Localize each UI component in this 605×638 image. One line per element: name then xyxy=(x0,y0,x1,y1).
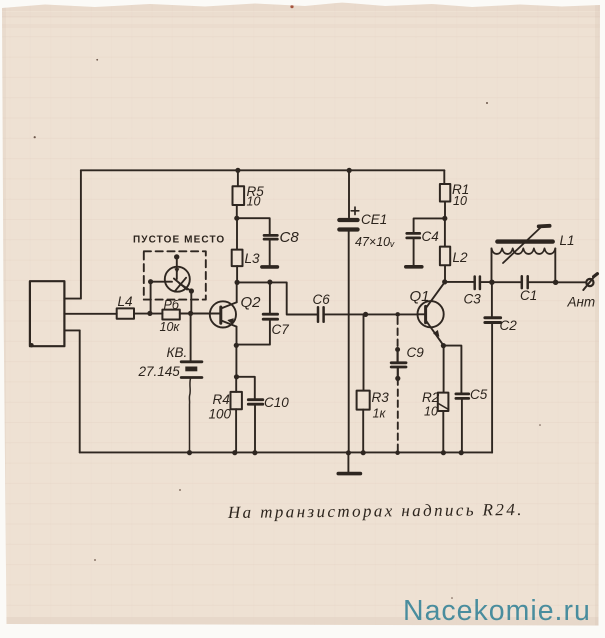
transistor Q2 xyxy=(210,301,237,327)
wire left vertical lower xyxy=(79,330,81,452)
node crystal bus xyxy=(187,450,192,455)
wire Q2 emitter chain xyxy=(235,345,237,377)
wire top supply bus xyxy=(81,169,444,171)
node Q2 collector xyxy=(235,280,240,285)
wire block output xyxy=(64,313,116,315)
node Q1 collector xyxy=(442,279,447,284)
node tank left xyxy=(489,280,494,285)
wire C10 bottom xyxy=(254,404,256,453)
capacitor C1 xyxy=(492,281,522,283)
wire C4 branch xyxy=(414,218,445,233)
svg-text:10: 10 xyxy=(247,195,261,209)
svg-text:На транзисторах надпись R24.: На транзисторах надпись R24. xyxy=(227,500,524,522)
wire bottom ground bus xyxy=(80,451,492,453)
svg-text:C5: C5 xyxy=(470,387,488,402)
svg-text:Q1: Q1 xyxy=(410,288,430,305)
inductor L2 xyxy=(444,218,446,246)
capacitor C7 xyxy=(269,282,271,314)
wire R1 to node xyxy=(444,202,446,219)
svg-text:L1: L1 xyxy=(560,233,575,248)
svg-text:27.145: 27.145 xyxy=(138,364,181,379)
svg-text:C4: C4 xyxy=(422,229,439,244)
right edge shadow xyxy=(595,0,600,638)
node junction base-left xyxy=(147,311,152,316)
node R3 bus xyxy=(361,450,366,455)
node Q1 emitter xyxy=(441,343,446,348)
wire phantom base xyxy=(151,282,172,314)
wire top bus corner to R1 xyxy=(443,170,445,184)
resistor R4 xyxy=(231,392,242,409)
ground symbol xyxy=(347,453,349,472)
node C5 bus xyxy=(459,450,464,455)
svg-text:ПУСТОЕ МЕСТО: ПУСТОЕ МЕСТО xyxy=(133,235,225,246)
bottom edge shadow xyxy=(0,617,605,626)
svg-text:C2: C2 xyxy=(500,318,518,333)
svg-text:Nacekomie.ru: Nacekomie.ru xyxy=(403,595,591,627)
svg-text:1к: 1к xyxy=(373,407,387,421)
svg-text:10к: 10к xyxy=(160,320,181,334)
wire C5 bottom xyxy=(461,398,463,452)
wire R6 to Q2 base xyxy=(180,313,221,315)
svg-text:C10: C10 xyxy=(264,395,289,410)
torn edge shadow top xyxy=(0,3,605,11)
svg-text:КВ.: КВ. xyxy=(167,345,188,360)
svg-text:CE1: CE1 xyxy=(361,212,387,227)
capacitor C3 xyxy=(473,277,476,290)
svg-text:R2: R2 xyxy=(422,390,440,405)
inductor L4 xyxy=(117,308,134,318)
resistor R2 xyxy=(443,346,445,393)
wire C3 to tank node xyxy=(480,281,492,283)
svg-text:100: 100 xyxy=(209,407,232,422)
node C10 bus xyxy=(252,450,257,455)
node block corner blob xyxy=(29,343,33,347)
wire upper tab of block xyxy=(64,298,80,300)
node tank right xyxy=(553,280,558,285)
node R1-L2 junction xyxy=(442,216,447,221)
svg-text:L3: L3 xyxy=(245,251,261,266)
left edge shadow xyxy=(2,0,6,638)
wire L4 to node xyxy=(134,313,162,315)
node R5 top bus xyxy=(235,168,240,173)
capacitor C2 xyxy=(491,282,493,317)
node CE1 bus / ground xyxy=(346,450,351,455)
wire L3 to collector node xyxy=(236,266,238,282)
inductor L3 xyxy=(232,250,243,267)
ground bar C4 xyxy=(406,265,422,269)
wire L3 to R5 node xyxy=(236,218,238,249)
node R5-L3 junction xyxy=(234,216,239,221)
wire C6 to Q1 base xyxy=(324,313,418,315)
resistor R5 xyxy=(233,186,245,205)
wire Q2 collector up xyxy=(236,282,238,302)
antenna terminal xyxy=(586,279,593,286)
capacitor C10 xyxy=(248,398,262,401)
wire C10 branch xyxy=(237,377,255,399)
wire C8 bottom xyxy=(269,239,271,265)
svg-text:C8: C8 xyxy=(280,229,300,246)
svg-text:C6: C6 xyxy=(313,292,331,307)
svg-text:R4: R4 xyxy=(213,392,230,407)
svg-text:C3: C3 xyxy=(464,292,482,307)
node C9 tee xyxy=(395,312,400,317)
wire collector to C7 corner xyxy=(237,282,318,314)
wire antenna xyxy=(556,281,587,283)
wire Q2 emitter down xyxy=(236,327,238,346)
node junction base-right xyxy=(188,311,193,316)
capacitor C8 xyxy=(264,234,277,237)
wire phantom emitter down xyxy=(190,291,192,313)
crystal KB xyxy=(190,314,192,361)
wire C5 branch xyxy=(443,346,461,394)
svg-text:C9: C9 xyxy=(407,345,425,360)
node C10 tee xyxy=(234,374,239,379)
svg-text:Рб: Рб xyxy=(164,298,180,312)
inductor L1 tank xyxy=(492,226,556,282)
wire R4 bottom xyxy=(235,409,237,453)
svg-text:10: 10 xyxy=(453,194,467,208)
wire R5 top to bus xyxy=(237,170,238,218)
node Q2 emitter xyxy=(234,343,239,348)
capacitor C5 xyxy=(456,392,469,395)
transistor phantom xyxy=(165,257,192,292)
resistor R3 xyxy=(363,314,365,390)
wire C4 bottom xyxy=(413,238,415,266)
node R4 bus xyxy=(232,450,237,455)
dashed box empty place xyxy=(144,251,206,299)
wire left vertical upper xyxy=(80,170,82,298)
node C9 bus xyxy=(395,450,400,455)
node phantom base dot xyxy=(148,279,153,284)
capacitor C6 xyxy=(317,307,320,322)
wire R4 top xyxy=(235,377,237,392)
svg-text:47×10ᵥ: 47×10ᵥ xyxy=(355,235,395,249)
ground bar C8 xyxy=(262,265,278,269)
node C7 top xyxy=(267,280,272,285)
transistor Q1 xyxy=(418,282,445,345)
resistor R1 xyxy=(440,184,450,202)
svg-text:C1: C1 xyxy=(520,288,537,303)
node R2 bus xyxy=(441,450,446,455)
wire C8 branch xyxy=(237,218,270,235)
svg-text:10: 10 xyxy=(424,405,438,419)
resistor R6 xyxy=(162,310,179,320)
capacitor C4 xyxy=(407,232,420,235)
microphone block xyxy=(30,281,65,346)
capacitor CE1 electrolytic xyxy=(347,168,352,173)
node R3 tee xyxy=(363,312,368,317)
wire lower tab of block xyxy=(64,329,79,331)
capacitor C9 dashed branch xyxy=(397,318,399,353)
paper specks xyxy=(34,59,541,599)
wire Q1 collector to C3 xyxy=(445,281,475,283)
svg-text:Q2: Q2 xyxy=(241,294,262,311)
svg-text:R3: R3 xyxy=(372,390,390,405)
svg-text:C7: C7 xyxy=(272,322,290,337)
node phantom emitter dot xyxy=(189,288,194,293)
svg-text:Ант: Ант xyxy=(567,295,596,310)
svg-text:L2: L2 xyxy=(453,250,469,265)
svg-text:L4: L4 xyxy=(118,294,133,309)
node phantom collector dot xyxy=(174,254,179,259)
